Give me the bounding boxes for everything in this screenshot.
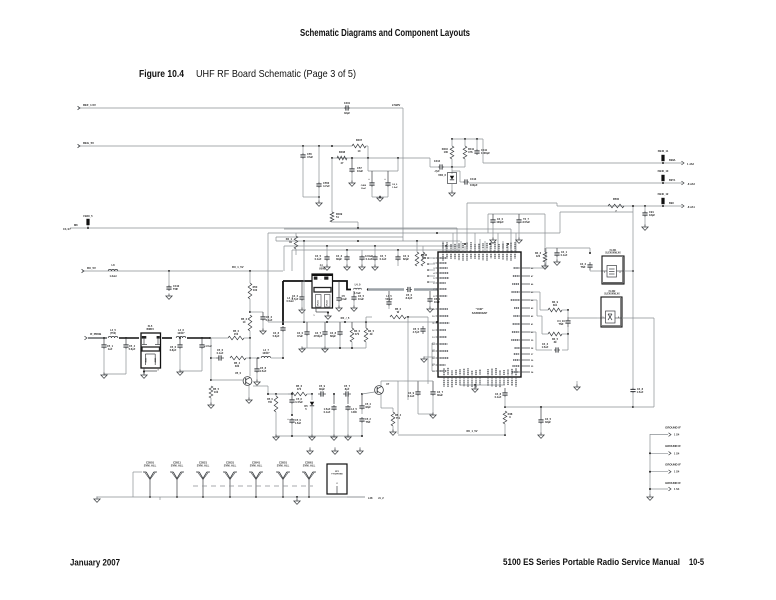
svg-text:1uF: 1uF — [108, 347, 113, 351]
svg-text:1 JA2: 1 JA2 — [687, 162, 694, 166]
svg-text:GROUND IF: GROUND IF — [665, 481, 681, 485]
module U500 label — [319, 264, 326, 271]
capacitor C457 at Q451 — [254, 358, 267, 385]
wire IC right nets to FL402 — [530, 292, 542, 316]
svg-text:C401: C401 — [344, 101, 351, 105]
capacitor C461 shunt polarized — [324, 394, 337, 436]
wire REF vertical drop — [402, 108, 404, 237]
module U500 inner bar — [314, 288, 331, 293]
wire y171 sub — [368, 158, 398, 171]
vertical x428 down — [427, 317, 429, 384]
dashed coupling line — [193, 485, 313, 487]
U400 bottom pins — [444, 368, 516, 388]
svg-text:33pF: 33pF — [545, 420, 551, 424]
svg-text:0.1uF: 0.1uF — [217, 351, 224, 355]
net mid wire y407 — [504, 406, 633, 408]
capacitor C420 bottom of bold wire — [273, 326, 286, 358]
wire C405 to C406 — [303, 159, 319, 197]
svg-text:SYM_ALL: SYM_ALL — [171, 464, 184, 468]
capacitor C434 series vertical — [580, 252, 593, 270]
svg-text:SYM_ALL: SYM_ALL — [144, 464, 157, 468]
svg-text:4700pF: 4700pF — [314, 334, 323, 338]
resistor R447 shunt — [421, 246, 425, 266]
wire IC left pin stubs — [427, 257, 435, 283]
svg-text:5.6pF: 5.6pF — [129, 347, 136, 351]
svg-text:RX_5V: RX_5V — [87, 266, 96, 270]
resistor R455 vertical — [208, 386, 220, 408]
svg-text:5.6pF: 5.6pF — [273, 334, 280, 338]
connector pins J4 group — [649, 426, 681, 492]
svg-text:1000pF: 1000pF — [481, 151, 490, 155]
wire bottom rail to label — [347, 496, 384, 500]
svg-text:VR4_6: VR4_6 — [438, 173, 446, 177]
bus wire net2 — [276, 237, 403, 241]
svg-text:10uF: 10uF — [341, 297, 347, 301]
svg-text:SYM_ALL: SYM_ALL — [303, 464, 316, 468]
svg-text:10uF: 10uF — [358, 297, 364, 301]
net y158 wire — [331, 157, 430, 159]
wire y214 above IC right — [488, 214, 545, 248]
svg-text:700: 700 — [268, 401, 273, 404]
resistor R441 series — [540, 300, 569, 312]
filter FL401 label — [605, 249, 621, 255]
resistor R458 shunt — [267, 393, 278, 436]
junction bottom chain 1 — [311, 393, 313, 395]
inductor L8 series — [108, 263, 118, 278]
wire mid net up corner — [366, 317, 372, 322]
svg-text:2.5M/V: 2.5M/V — [392, 103, 400, 107]
wire loop top from IC — [404, 380, 433, 382]
svg-text:1 S4: 1 S4 — [674, 470, 680, 474]
svg-text:L48: L48 — [368, 496, 373, 500]
junction IF node — [209, 337, 211, 339]
junction loop bottom — [504, 434, 506, 436]
net REF_1_5V wire — [78, 103, 404, 110]
resistor R512 series — [390, 307, 406, 319]
svg-text:0.1uF: 0.1uF — [495, 395, 502, 399]
svg-text:FB40_10: FB40_10 — [658, 169, 669, 173]
ground below C408 C409 — [372, 187, 388, 201]
net REG_5V wire — [78, 141, 353, 148]
op-amp U400 main IC body — [438, 252, 521, 377]
svg-text:FL402: FL402 — [609, 290, 616, 293]
connector pin JA1 stub — [682, 204, 696, 209]
capacitor C458 series — [318, 384, 326, 397]
transistor Q452 — [362, 382, 390, 394]
net bottom rail — [133, 496, 365, 498]
svg-text:10uF: 10uF — [357, 169, 363, 173]
svg-text:1.5uF: 1.5uF — [392, 187, 398, 189]
svg-text:500pF: 500pF — [386, 298, 393, 301]
resistor R450 vertical — [248, 271, 258, 312]
svg-text:C412: C412 — [434, 159, 441, 163]
svg-text:UHF RF Board Schematic (Page 3: UHF RF Board Schematic (Page 3 of 5) — [196, 69, 356, 80]
capacitor C429 shunt in loop — [408, 381, 433, 414]
resistor R454 series — [230, 356, 259, 368]
resistor R500 series — [608, 197, 624, 213]
junction bus dots — [303, 232, 509, 251]
module U500 pin marks top — [314, 277, 329, 282]
capacitor C426 shunt — [314, 322, 328, 348]
svg-text:751: 751 — [396, 416, 401, 420]
net IF_PROBE entry — [85, 332, 105, 340]
svg-text:1200?: 1200? — [262, 351, 270, 355]
svg-text:TYXXFXXE: TYXXFXXE — [331, 474, 343, 476]
net B93 wire to J4-8 — [467, 203, 682, 251]
svg-text:-7pF: -7pF — [434, 169, 440, 173]
filter FL1 pins top — [142, 336, 160, 345]
capacitor C405 shunt — [300, 152, 313, 159]
svg-text:REG_5V: REG_5V — [83, 141, 94, 145]
resistor R440 shunt — [350, 322, 360, 348]
net B90 wire to J4-1 — [483, 139, 682, 163]
svg-text:TNF: TNF — [173, 287, 178, 291]
resistor R452 vertical — [241, 315, 252, 338]
capacitor C456 series — [210, 338, 224, 380]
U400 top pins — [443, 242, 515, 261]
capacitor C414 shunt on B93 — [642, 205, 656, 230]
wire under IC bracket — [460, 384, 505, 388]
capacitor C452 shunt — [250, 312, 273, 334]
zener diode VR401 — [438, 167, 456, 184]
zener diode D455 — [304, 394, 314, 436]
wire bottom rail left leg — [133, 472, 142, 497]
svg-text:SYM_ALL: SYM_ALL — [250, 464, 263, 468]
svg-text:0.1uF: 0.1uF — [366, 257, 373, 261]
inductor L451 series — [104, 328, 139, 338]
svg-text:FB40_11: FB40_11 — [658, 149, 669, 153]
svg-text:TNF: TNF — [581, 265, 586, 269]
svg-text:1.5uF: 1.5uF — [260, 369, 267, 373]
svg-text:39uF: 39uF — [437, 393, 443, 397]
svg-text:C4_9: C4_9 — [392, 183, 398, 186]
net connector rail vertical — [649, 434, 651, 495]
svg-text:TNF: TNF — [366, 421, 371, 424]
svg-text:0.1uF: 0.1uF — [315, 257, 322, 261]
svg-text:C413: C413 — [470, 177, 477, 181]
ground below C410 — [166, 294, 172, 300]
svg-text:1 S4: 1 S4 — [674, 451, 680, 455]
stripline segment 2 — [414, 288, 438, 291]
capacitor C453 shunt — [123, 337, 135, 374]
bus wire net1 — [268, 233, 560, 322]
capacitor C418 shunt — [372, 246, 387, 270]
junction VR top — [451, 166, 453, 168]
net RX_Figure wire — [268, 316, 437, 322]
svg-text:1.5uF: 1.5uF — [637, 390, 644, 394]
footer date — [70, 558, 120, 569]
capacitor C401 series on REF line — [344, 101, 351, 115]
net loop bottom wire RX_1_5V — [398, 429, 505, 435]
capacitor C423 shunt under stripline — [351, 291, 365, 311]
label B90L — [669, 158, 676, 162]
U400 right pins — [511, 267, 534, 374]
capacitor C515 series vertical — [413, 326, 426, 334]
capacitor C415 shunt — [315, 246, 331, 270]
svg-text:470: 470 — [297, 387, 302, 391]
resistor R411 shunt — [463, 139, 474, 159]
svg-text:RX_/_5: RX_/_5 — [341, 316, 350, 320]
resistor R446 shunt — [415, 241, 427, 266]
svg-text:1.5uF: 1.5uF — [542, 345, 549, 349]
svg-text:GROUND IF: GROUND IF — [665, 426, 681, 430]
inductor L452 series — [176, 328, 210, 338]
wire IF corner down — [249, 338, 251, 376]
svg-text:B9Y1: B9Y1 — [669, 178, 676, 182]
ground rail mid cluster — [299, 347, 366, 353]
capacitor C430 shunt in loop — [430, 381, 443, 414]
ferrite bead FB405 — [83, 214, 93, 229]
svg-text:1200?: 1200? — [177, 331, 185, 335]
capacitor C411 shunt — [474, 139, 490, 155]
svg-text:100: 100 — [253, 288, 258, 292]
svg-text:1.5uF: 1.5uF — [295, 422, 302, 425]
svg-text:150: 150 — [234, 332, 239, 336]
bus wire net4 — [284, 246, 460, 271]
module U500 inner box2 — [325, 295, 331, 308]
svg-text:47uF: 47uF — [297, 334, 303, 338]
wire FL401 out — [624, 270, 634, 272]
svg-text:.047uF: .047uF — [522, 220, 531, 224]
svg-text:R407: R407 — [356, 138, 363, 142]
wire y158 to cluster — [429, 158, 431, 167]
svg-text:1 S4: 1 S4 — [674, 433, 680, 437]
label B93 — [669, 201, 674, 205]
ground bottom rail — [94, 497, 160, 503]
svg-text:5100 ES Series Portable Radio: 5100 ES Series Portable Radio Service Ma… — [503, 557, 680, 568]
wire FL402 out — [622, 317, 654, 319]
wire under IC pin row drops — [460, 380, 504, 385]
resistor R456 series — [288, 384, 312, 396]
capacitor C428 series on vertical — [630, 387, 643, 408]
svg-text:33pF: 33pF — [365, 406, 371, 409]
connector pin JA2 stub — [682, 161, 695, 166]
filter FL401 inner — [602, 266, 624, 278]
capacitor C410 shunt — [166, 284, 179, 291]
svg-text:1400: 1400 — [351, 410, 357, 414]
transformer XF1 label — [0, 0, 1, 1]
resistor R407 series — [352, 138, 366, 153]
svg-text:Figure 10.4: Figure 10.4 — [139, 69, 184, 80]
bus wire net3 — [276, 237, 460, 241]
junction R450 R452 — [249, 311, 251, 313]
svg-text:33pF: 33pF — [344, 111, 350, 115]
svg-text:4.7pF: 4.7pF — [413, 330, 420, 334]
svg-text:SYM_ALL: SYM_ALL — [277, 464, 290, 468]
ground below C407 — [349, 181, 355, 187]
svg-text:0.1uF: 0.1uF — [266, 318, 273, 322]
capacitor C455 shunt polarized — [199, 337, 212, 371]
ground R443 — [542, 264, 548, 270]
svg-text:SLEXXXMLXX: SLEXXXMLXX — [604, 294, 620, 296]
svg-text:8.2pF: 8.2pF — [406, 296, 413, 300]
svg-text:100pF: 100pF — [470, 183, 478, 187]
svg-text:REF_1.5V: REF_1.5V — [83, 103, 96, 107]
svg-text:SLEXXXMLXX: SLEXXXMLXX — [605, 253, 621, 255]
junction cluster a — [451, 138, 478, 140]
wire FL1 out — [162, 337, 172, 339]
svg-text:45M15: 45M15 — [146, 327, 154, 331]
svg-text:18pF: 18pF — [649, 213, 655, 217]
svg-text:6.8pF: 6.8pF — [170, 348, 177, 352]
inductor L453 shunt — [345, 394, 357, 436]
wire Q452 collector — [381, 381, 398, 386]
capacitor C462b shunt — [359, 417, 371, 436]
ground rail bottom chain — [273, 435, 363, 441]
capacitor C454 shunt — [170, 337, 183, 371]
net label RX_1_5V — [232, 265, 244, 269]
svg-text:TNF: TNF — [559, 322, 564, 326]
svg-text:-8 JA3: -8 JA3 — [687, 182, 695, 186]
ground below C406 — [316, 188, 322, 206]
net tall vertical x633 — [560, 205, 634, 388]
ground below VR401 — [449, 184, 455, 196]
capacitor C408 shunt polarized — [361, 171, 375, 190]
junction C406 top — [318, 145, 320, 182]
net B91 wire to J4-3 — [469, 182, 682, 184]
capacitor C435 series vertical — [557, 310, 570, 327]
module U500 inner box1 — [316, 295, 322, 308]
svg-text:470: 470 — [355, 332, 360, 336]
svg-text:4.7uF: 4.7uF — [323, 184, 330, 188]
net loop left vertical — [398, 381, 404, 434]
svg-text:L4_0: L4_0 — [355, 283, 361, 287]
junction RX_5V at R500 — [249, 270, 251, 272]
filter FL1 inner boxes — [144, 354, 157, 365]
capacitor C432 shunt — [538, 407, 552, 438]
connector pin JA3 stub — [682, 181, 696, 186]
resistor R453 series — [211, 329, 251, 340]
svg-text:U5_0: U5_0 — [235, 371, 242, 375]
svg-text:SA58000AP: SA58000AP — [472, 311, 488, 315]
net MOD_A wire — [63, 223, 457, 231]
vertical from bus to mid net — [303, 241, 305, 322]
U400 left pins — [432, 258, 449, 373]
resistor R410 shunt — [442, 139, 454, 159]
capacitor C460b shunt polarized — [287, 418, 301, 436]
capacitor C462 shunt — [359, 394, 371, 414]
resistor R443 shunt — [535, 248, 547, 265]
filter FL1 inner bar — [142, 347, 160, 351]
wire Q451 emitter — [246, 386, 252, 404]
svg-text:120: 120 — [536, 254, 541, 258]
filter FL1 label — [146, 324, 154, 331]
svg-text:68pF: 68pF — [330, 334, 336, 338]
junction mid net — [303, 321, 438, 323]
filter FL401 box — [602, 256, 624, 284]
bold wire module feed vertical — [283, 281, 294, 325]
svg-text:M8: M8 — [74, 223, 78, 227]
filter FL1 ground — [141, 368, 160, 378]
svg-text:-8 JA1: -8 JA1 — [687, 205, 695, 209]
svg-text:FL401: FL401 — [610, 249, 617, 252]
svg-text:4.7pF: 4.7pF — [292, 297, 299, 301]
capacitor C425 shunt — [297, 322, 310, 348]
svg-text:10uF: 10uF — [361, 188, 367, 190]
wire R410 R411 bottom join — [452, 159, 465, 167]
capacitor C431 shunt — [495, 388, 508, 407]
bold wire module output — [333, 281, 352, 290]
capacitor C407 shunt — [349, 158, 363, 182]
svg-text:R408: R408 — [339, 150, 346, 154]
svg-text:SYM_ALL: SYM_ALL — [224, 464, 237, 468]
svg-text:B90/L: B90/L — [669, 158, 676, 162]
svg-text:FB40_12: FB40_12 — [658, 192, 669, 196]
capacitor C436 left of FL402 — [530, 332, 568, 353]
diode array bottom row — [143, 461, 316, 498]
wire Q452 emitter — [380, 394, 382, 408]
svg-text:1 S4: 1 S4 — [674, 487, 680, 491]
svg-text:39pF: 39pF — [319, 387, 325, 391]
U400 part name — [472, 307, 488, 315]
svg-text:0.1uF: 0.1uF — [561, 253, 568, 257]
junction IF row2 — [282, 357, 284, 359]
capacitor C422 shunt — [336, 281, 348, 311]
ground under IC right — [574, 381, 580, 390]
wire MOD_A vertical drop — [456, 228, 458, 253]
node label 2.5M — [392, 103, 400, 107]
wire cluster top rail — [452, 138, 483, 140]
bold wire into module — [283, 280, 312, 282]
svg-text:RX_1_5V: RX_1_5V — [232, 265, 244, 269]
svg-text:39pF: 39pF — [336, 257, 342, 261]
wire bottom chain entry — [253, 386, 291, 395]
svg-text:0.1uF: 0.1uF — [324, 410, 331, 414]
net RX_5V wire — [82, 266, 284, 273]
svg-text:10uF: 10uF — [434, 300, 440, 304]
capacitor C417 shunt — [359, 250, 374, 270]
ground connector rail — [647, 495, 653, 501]
svg-text:(750): (750) — [110, 331, 116, 335]
svg-text:January 2007: January 2007 — [70, 558, 120, 569]
svg-text:1.2uH: 1.2uH — [109, 274, 116, 278]
ferrite bead FB40_12 — [658, 192, 669, 207]
svg-text:82pF: 82pF — [403, 257, 409, 261]
capacitor C433 shunt — [554, 248, 568, 265]
capacitor C500 series on stripline — [406, 287, 413, 300]
svg-text:R500: R500 — [613, 197, 620, 201]
svg-text:FB40_5: FB40_5 — [83, 214, 93, 218]
resistor R409 above MOD_A — [330, 158, 359, 229]
svg-text:0.1uF: 0.1uF — [408, 394, 415, 398]
svg-text:U7: U7 — [386, 382, 390, 386]
capacitor C421 shunt near module — [292, 281, 306, 313]
capacitor C459 series — [343, 384, 351, 397]
junction REG_5V main — [331, 145, 333, 147]
svg-text:RX_1_5V: RX_1_5V — [466, 429, 477, 433]
wire R512 to vertical — [406, 316, 428, 318]
capacitor C419 shunt — [395, 250, 409, 266]
label B91L — [669, 178, 676, 182]
svg-text:B93: B93 — [669, 201, 674, 205]
svg-text:Schematic Diagrams and Compone: Schematic Diagrams and Component Layouts — [300, 28, 470, 39]
svg-text:100pF: 100pF — [496, 220, 504, 224]
wire to FL402 — [568, 317, 601, 319]
ferrite bead FB40_11 — [658, 149, 669, 164]
svg-text:C4, E7: C4, E7 — [63, 227, 71, 231]
junction bottom chain 2 — [333, 393, 335, 395]
capacitor C409 shunt polarized — [384, 171, 398, 189]
svg-text:330: 330 — [235, 364, 240, 368]
svg-text:SYM_ALL: SYM_ALL — [197, 464, 210, 468]
transistor Q451 — [210, 371, 252, 385]
capacitor C406 shunt — [316, 181, 330, 188]
resistor R442 series — [542, 316, 569, 344]
ground under IC — [472, 387, 478, 393]
filter FL402 label — [604, 290, 620, 296]
capacitor C416 shunt — [336, 250, 350, 270]
resistor R448 vertical — [503, 411, 513, 435]
